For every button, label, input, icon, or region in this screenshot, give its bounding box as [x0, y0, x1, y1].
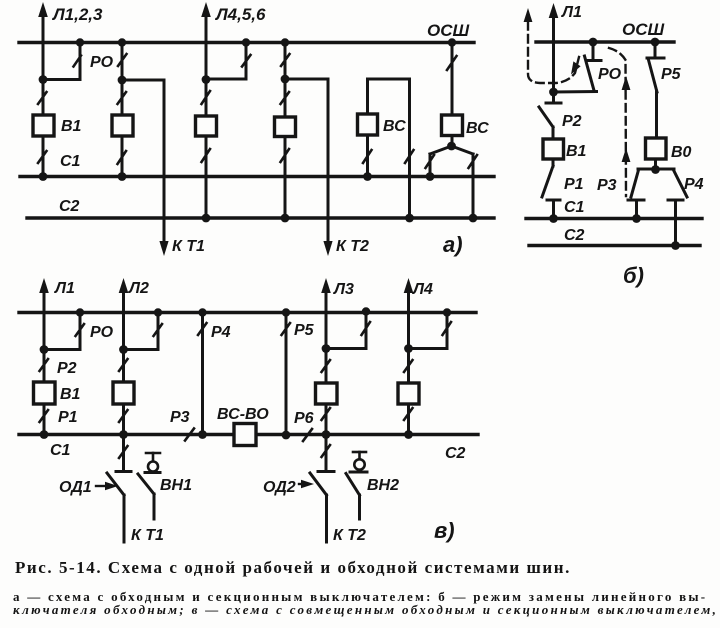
svg-text:К Т1: К Т1	[131, 527, 164, 544]
junction dot РО on ОСШ (б)	[589, 38, 598, 47]
disconnector РО slash (a)	[74, 56, 82, 67]
node dot Л2 (в)	[119, 345, 128, 354]
breaker ВС2 (a)	[442, 115, 463, 136]
junction dot Л4 on С2 (в)	[404, 430, 413, 439]
disconnector Р3 slash on bus (в)	[185, 429, 194, 441]
svg-text:Л4: Л4	[412, 281, 433, 298]
junction dot Л3 on С2 (в)	[322, 430, 331, 439]
disconnector Р2 blade open (б)	[539, 107, 553, 127]
breaker bay3 (a)	[196, 116, 217, 136]
arrow К Т2 (a)	[323, 241, 332, 256]
dashed path С1 to ОСШ (б)	[609, 48, 626, 196]
ВН2 blade open (в)	[346, 474, 360, 496]
wire breaker bay3 to С2 (a)	[205, 136, 208, 218]
svg-text:С1: С1	[60, 153, 81, 170]
wire node to РО branch (a bay3)	[206, 78, 246, 81]
bus С1 (a)	[20, 175, 494, 178]
junction dot Р5 on ОСШ (б)	[651, 38, 660, 47]
wire ВС2 box to node (a)	[451, 136, 454, 147]
svg-text:Р6: Р6	[294, 410, 314, 427]
disconnector Р1 contact tick (б)	[547, 199, 560, 202]
svg-text:ОД2: ОД2	[263, 479, 296, 496]
disconnector РО slash (в)	[76, 324, 85, 336]
disconnector slash below breaker Л4 (в)	[404, 408, 413, 420]
disconnector РО blade (б)	[585, 56, 595, 91]
svg-text:В1: В1	[60, 386, 81, 403]
breaker В1 (б)	[543, 139, 564, 159]
junction dot bay1 on С1 (a)	[39, 172, 48, 181]
wire В1 to С1 (в)	[43, 404, 46, 435]
wire К Т2 (a)	[327, 79, 330, 242]
node dot Л1 (б)	[549, 88, 558, 97]
disconnector branch wire Л2 (в)	[157, 313, 160, 350]
svg-text:С2: С2	[59, 198, 80, 215]
disconnector slash below breaker Т2 (a)	[281, 149, 290, 162]
caption line 2	[13, 589, 707, 605]
dashed path arrowhead 1 (б)	[622, 76, 631, 90]
breaker В1 (в)	[34, 382, 56, 404]
disconnector slash bay Т1 top (a)	[118, 54, 127, 66]
ВН2 stub (в)	[358, 452, 361, 459]
ОД1 blade open (в)	[107, 473, 124, 495]
junction dot bay Т2 on ОСШ (a)	[281, 38, 289, 46]
node dot Л1 (в)	[40, 345, 49, 354]
disconnector Р3 contact tick (б)	[628, 199, 644, 202]
node dot Л1,2,3	[39, 75, 48, 84]
disconnector Р1 blade open (б)	[542, 166, 553, 197]
disconnector slash ВС1 right (a)	[405, 150, 414, 163]
disconnector Р3 blade (б)	[631, 170, 639, 197]
svg-text:ВС-ВО: ВС-ВО	[217, 406, 269, 423]
disconnector Р2 stub (б)	[552, 92, 555, 101]
wire Л4 branch to node (в)	[409, 347, 448, 350]
ОД1 contact tick (в)	[116, 470, 131, 473]
wire Р5 to В0 (б)	[655, 91, 658, 138]
disconnector slash ВС2 left (a)	[426, 155, 435, 168]
wire node to РО branch (a)	[43, 78, 80, 81]
dashed path arrow (б)	[524, 8, 533, 22]
bypass column Р4 wire (в)	[201, 313, 204, 435]
wire С1 down to ОД1 (в)	[122, 435, 125, 471]
svg-text:Р4: Р4	[211, 324, 231, 341]
caption line 3	[13, 602, 718, 618]
disconnector slash above breaker Л4 (в)	[404, 360, 413, 372]
wire К Т1 (a)	[163, 80, 166, 242]
disconnector Р4 contact tick (б)	[668, 199, 683, 202]
disconnector slash below breaker Т1 (a)	[118, 151, 127, 164]
ВН1 contact tick (в)	[145, 471, 160, 474]
svg-text:Р4: Р4	[684, 176, 704, 193]
ОД2 contact tick (в)	[318, 470, 334, 473]
ВН1 top tick (в)	[146, 452, 160, 455]
wire breaker Л2 to С1 (в)	[122, 404, 125, 435]
junction dot Л2 branch on ОСШ (в)	[154, 308, 162, 316]
wire ВС1 left leg upper (a)	[366, 79, 369, 114]
junction dot Л3 branch on ОСШ (в)	[362, 307, 370, 315]
svg-text:Р2: Р2	[562, 113, 582, 130]
junction dot ВС2 on С2 (a)	[469, 214, 478, 223]
arrow Л4 (в)	[404, 278, 414, 293]
wire ОД1 to К Т1 (в)	[123, 495, 126, 542]
junction dot РО bay3 on ОСШ (a)	[242, 38, 250, 46]
bus ОСШ (б)	[536, 40, 674, 43]
arrow Л1 (б)	[549, 3, 559, 18]
svg-text:В1: В1	[61, 118, 82, 135]
disconnector slash below breaker bay3 (a)	[202, 149, 211, 162]
wire С2 down to ОД2 (в)	[325, 435, 328, 471]
arrow Л3 (в)	[321, 278, 331, 293]
node dot Л3 (в)	[322, 344, 331, 353]
junction dot Р3 on С1 (б)	[632, 214, 641, 223]
disconnector slash above breaker Л2 (в)	[119, 359, 128, 371]
node bar below В0 (б)	[638, 168, 674, 171]
ОД2 blade open (в)	[310, 473, 327, 495]
junction dot bay Т2 on С2 (a)	[281, 214, 290, 223]
svg-text:ОСШ: ОСШ	[427, 21, 470, 40]
disconnector slash above В1 (a bay1)	[38, 92, 47, 104]
arrow to ОД2 (в)	[299, 483, 307, 485]
disconnector Р2 contact tick (б)	[546, 102, 561, 105]
arrow Л4,5,6	[201, 2, 211, 17]
breaker Л2 (в)	[113, 382, 134, 404]
arrow К Т1 (a)	[159, 241, 168, 256]
disconnector Р2 slash (в)	[40, 359, 49, 371]
disconnector Р5 slash (в)	[282, 323, 291, 335]
svg-text:Л4,5,6: Л4,5,6	[214, 5, 266, 24]
disconnector РО stub (б)	[592, 42, 595, 59]
svg-text:Л3: Л3	[333, 281, 354, 298]
junction dot РО on ОСШ (в)	[76, 308, 84, 316]
disconnector slash Л3 branch (в)	[362, 322, 371, 335]
disconnector slash above breaker Т1 (a)	[118, 92, 127, 104]
dashed path mid arrowhead (б)	[571, 61, 581, 74]
svg-text:К Т1: К Т1	[172, 238, 205, 255]
wire node to breaker Т2 (a)	[284, 79, 287, 117]
svg-text:ВН2: ВН2	[367, 477, 399, 494]
svg-text:ВС: ВС	[466, 120, 489, 137]
wire node to В1 (в)	[43, 350, 46, 383]
wire node Т1 to transformer branch (a)	[122, 79, 164, 82]
bay Т1: disconnector wire from ОСШ (a)	[121, 43, 124, 81]
disconnector slash Л2 branch (в)	[154, 324, 163, 336]
svg-text:В0: В0	[671, 144, 692, 161]
svg-text:а): а)	[443, 232, 463, 257]
junction dot Р4 on С2 (б)	[671, 241, 680, 250]
wire ВС1 box to С1 (a)	[366, 135, 369, 177]
junction dot Л2 on С1 (в)	[119, 430, 128, 439]
wire Р4 to С2 (б)	[674, 200, 677, 246]
node dot bay Т1 (a)	[118, 76, 127, 85]
disconnector slash ВС2 right (a)	[469, 155, 478, 168]
disconnector slash above breaker Л3 (в)	[322, 360, 331, 372]
svg-text:С1: С1	[50, 442, 71, 459]
feeder line Л1 wire (в)	[43, 290, 46, 350]
disconnector Р1 slash (в)	[40, 410, 49, 422]
feeder line Л4,5,6 wire	[205, 14, 208, 80]
arrow Л1 (в)	[39, 278, 49, 293]
bypass column Р5 wire (в)	[285, 313, 288, 436]
disconnector slash ВС2 top (a)	[447, 56, 457, 70]
svg-text:ВС: ВС	[383, 118, 406, 135]
ВН1 stub (в)	[152, 453, 155, 461]
svg-text:РО: РО	[598, 66, 622, 83]
disconnector РО contact tick (б)	[587, 59, 601, 62]
junction dot Р4 on ОСШ (в)	[198, 308, 206, 316]
caption line 1	[15, 558, 571, 578]
svg-text:Р3: Р3	[170, 409, 190, 426]
breaker ВС1 (a)	[358, 114, 378, 135]
svg-text:К Т2: К Т2	[336, 238, 369, 255]
wire node to breaker Л3 (в)	[325, 349, 328, 384]
disconnector slash below breaker Л2 (в)	[119, 410, 128, 422]
feeder line Л3 wire (в)	[325, 290, 328, 349]
wire В1 to Р1 (б)	[552, 159, 555, 166]
wire breaker Т2 to С2 (a)	[284, 137, 287, 219]
bus С2 (б)	[529, 244, 700, 247]
bus С2 (a)	[27, 216, 494, 219]
junction dot ВС2 on ОСШ (a)	[448, 38, 456, 46]
node dot bay Т2 (a)	[281, 75, 290, 84]
bay Т2: disconnector wire from ОСШ (a)	[284, 43, 287, 80]
wire breaker Л4 to С2 (в)	[407, 404, 410, 435]
disconnector РО branch wire (в)	[79, 313, 82, 350]
wire Р2 to В1 (б)	[552, 127, 555, 139]
disconnector Р4 blade open (б)	[674, 170, 688, 197]
wire ВС2 node to right leg (a)	[452, 146, 474, 154]
wire Р3 to С1 (б)	[635, 200, 638, 219]
ВН2 lower wire (в)	[358, 495, 361, 519]
breaker В0 (б)	[646, 138, 667, 159]
disconnector Р4 slash (в)	[198, 323, 207, 335]
disconnector РО branch wire (a)	[79, 43, 82, 80]
wire Л3 branch to node (в)	[326, 347, 366, 350]
svg-text:ОД1: ОД1	[59, 479, 92, 496]
junction dot Р5 on ОСШ (в)	[282, 308, 290, 316]
working bus С1-С2 row (в)	[19, 433, 478, 436]
feeder line Л4 wire (в)	[407, 290, 410, 349]
wire ВС2 right leg (a)	[472, 154, 475, 218]
wire node Т2 to transformer branch (a)	[285, 78, 328, 81]
bus С1 (б)	[526, 217, 702, 220]
disconnector branch wire Л3 (в)	[365, 312, 368, 349]
ВН2 top tick (в)	[353, 451, 366, 454]
svg-text:К Т2: К Т2	[333, 527, 366, 544]
breaker Т1 (a)	[112, 115, 133, 136]
breaker Т2 (a)	[275, 117, 296, 137]
svg-text:Р1: Р1	[58, 409, 78, 426]
svg-text:Р1: Р1	[564, 176, 584, 193]
svg-text:С2: С2	[564, 227, 585, 244]
disconnector РО branch wire (a bay3)	[245, 43, 248, 80]
svg-text:Р5: Р5	[294, 322, 315, 339]
junction dot ВС1 on С1 (a)	[363, 172, 372, 181]
junction dot Р5 on С2 (в)	[282, 431, 291, 440]
junction dot РО on ОСШ (a)	[76, 38, 84, 46]
disconnector slash ВС1 left (a)	[363, 150, 372, 163]
disconnector slash Л4 branch (в)	[443, 322, 452, 335]
disconnector slash below В1 (a bay1)	[38, 151, 47, 163]
disconnector Р5 blade (б)	[649, 60, 658, 92]
breaker В1 (a)	[33, 115, 54, 136]
svg-text:Р3: Р3	[597, 177, 617, 194]
disconnector slash РО bay3 (a)	[242, 55, 251, 67]
svg-text:Л1: Л1	[54, 280, 75, 297]
disconnector Р5 contact tick (б)	[647, 57, 664, 60]
svg-text:Л1,2,3: Л1,2,3	[51, 5, 103, 24]
disconnector branch wire Л4 (в)	[446, 313, 449, 349]
disconnector slash below breaker Л3 (в)	[322, 408, 331, 420]
disconnector Р6 slash on bus (в)	[303, 429, 312, 441]
wire node to РО blade (б)	[554, 90, 597, 94]
breaker ВС-ВО (в)	[234, 424, 256, 446]
node dot Л4,5,6	[202, 75, 211, 84]
junction dot Р1 on С1 (б)	[549, 214, 558, 223]
wire ВС2 node to left leg (a)	[430, 146, 452, 154]
node dot below В0 (б)	[651, 165, 660, 174]
wire В0 to node (б)	[654, 159, 657, 170]
disconnector Р5 stub (б)	[654, 42, 657, 56]
dashed path to line Л1 (б)	[528, 22, 579, 83]
disconnector slash above breaker bay3 (a)	[202, 91, 211, 104]
svg-text:Л2: Л2	[128, 280, 149, 297]
wire РО branch to node (в)	[44, 348, 80, 351]
bus ОСШ (a)	[19, 41, 474, 44]
wire ОД2 to К Т2 (в)	[325, 495, 328, 542]
disconnector slash above ОД2 (в)	[322, 445, 331, 457]
wire node to breaker Т1 (a)	[121, 80, 124, 115]
sectional breaker ВС2 wire from ОСШ (a)	[451, 43, 454, 116]
junction dot ВС2 on С1 (a)	[426, 172, 435, 181]
junction dot bay3 on С2 (a)	[202, 214, 211, 223]
wire breaker Т1 to С1 (a)	[121, 136, 124, 177]
arrow Л2 (в)	[119, 278, 129, 293]
junction dot Л1 on С1 (в)	[40, 430, 49, 439]
disconnector slash bay Т2 top (a)	[281, 54, 290, 66]
junction dot bay Т1 on ОСШ (a)	[118, 38, 126, 46]
ВН2 circle (в)	[354, 459, 364, 469]
breaker Л3 (в)	[316, 383, 338, 404]
wire breaker Л3 to С2 (в)	[325, 404, 328, 435]
svg-text:Р2: Р2	[57, 360, 77, 377]
wire node to breaker В1 (a)	[42, 80, 45, 115]
svg-text:Р5: Р5	[661, 66, 682, 83]
junction dot Р4 on С1 (в)	[198, 430, 207, 439]
wire node to breaker Л2 (в)	[122, 350, 125, 383]
ВН2 contact tick (в)	[350, 471, 367, 474]
svg-text:В1: В1	[566, 143, 587, 160]
arrow to ОД1 (в)	[96, 485, 108, 487]
junction dot ВС1 on С2 (a)	[405, 214, 414, 223]
ВН1 circle (в)	[148, 462, 158, 472]
dashed path arrowhead 2 (б)	[622, 148, 631, 162]
wire node to breaker bay3 (a)	[205, 80, 208, 117]
wire В1 to С1 (a)	[42, 136, 45, 177]
ВН1 lower wire (в)	[153, 494, 156, 519]
wire ВС2 left leg (a)	[429, 154, 432, 177]
svg-text:РО: РО	[90, 324, 114, 341]
feeder line Л1 wire (б)	[552, 16, 555, 92]
svg-text:ВН1: ВН1	[160, 477, 192, 494]
svg-text:ОСШ: ОСШ	[622, 20, 665, 39]
junction dot bay Т1 on С1 (a)	[118, 172, 127, 181]
ВН1 blade open (в)	[138, 474, 154, 494]
wire Л2 branch to node (в)	[124, 348, 159, 351]
wire Р1 to С1 (б)	[552, 200, 555, 219]
svg-text:С2: С2	[445, 445, 466, 462]
breaker Л4 (в)	[398, 383, 419, 404]
node dot ВС2 (a)	[447, 142, 456, 151]
svg-text:Л1: Л1	[561, 4, 582, 21]
svg-text:РО: РО	[90, 54, 114, 71]
svg-text:С1: С1	[564, 199, 585, 216]
svg-text:в): в)	[434, 518, 455, 543]
disconnector slash above ОД1 (в)	[119, 446, 128, 458]
svg-text:б): б)	[623, 263, 644, 288]
wire node to breaker Л4 (в)	[407, 349, 410, 384]
bus ОСШ (в)	[19, 311, 476, 314]
junction dot Л4 branch on ОСШ (в)	[443, 308, 451, 316]
feeder line Л2 wire (в)	[122, 290, 125, 350]
wire ВС1 right leg (a)	[408, 79, 411, 218]
disconnector slash above breaker Т2 (a)	[281, 92, 290, 104]
feeder line Л1,2,3 wire	[42, 14, 45, 80]
arrow Л1,2,3	[38, 2, 48, 17]
node dot Л4 (в)	[404, 344, 413, 353]
sectional breaker ВС1 top bar (a)	[368, 78, 410, 81]
